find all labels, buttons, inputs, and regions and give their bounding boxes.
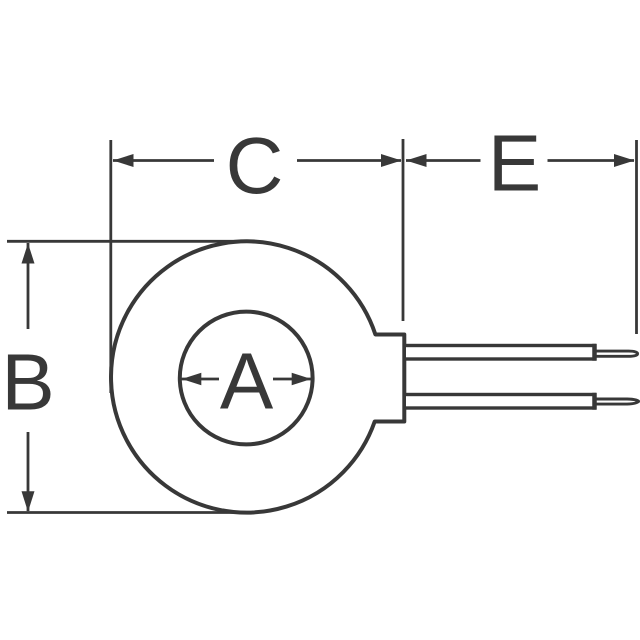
arrowhead E right (614, 154, 635, 167)
wire 2 insulation (404, 395, 594, 409)
wire 2 bare lead (595, 399, 639, 404)
dimension line B (broken by letter) (27, 243, 30, 329)
body: outer circle with right tab (111, 241, 404, 512)
arrowhead B down (22, 491, 35, 512)
B top extension line (7, 240, 250, 243)
arrowhead C left (113, 154, 134, 167)
wire 1 bare lead (595, 351, 638, 356)
extension line left of C (body left tangent) (109, 140, 112, 393)
svg-text:A: A (220, 337, 274, 426)
dimension line E (broken by letter) (406, 159, 481, 162)
svg-text:B: B (1, 338, 54, 427)
dimension line A (broken by letter) (181, 378, 311, 381)
arrowhead A right (292, 373, 312, 386)
extension line right of E (wire tip) (635, 140, 638, 334)
svg-text:C: C (226, 121, 284, 210)
wire 1 end cap (592, 344, 597, 361)
wire 1 insulation (404, 346, 594, 360)
wire 2 end cap (592, 393, 597, 410)
arrowhead B up (22, 243, 35, 263)
B bottom extension line (7, 511, 250, 514)
dimension line C (broken by letter) (113, 159, 214, 162)
extension line shared C/E (tab right edge) (402, 139, 405, 321)
inner circle (hole) (180, 312, 313, 445)
arrowhead A left (182, 373, 202, 386)
arrowhead C right (381, 154, 402, 167)
svg-text:E: E (488, 119, 541, 208)
arrowhead E left (406, 154, 427, 167)
